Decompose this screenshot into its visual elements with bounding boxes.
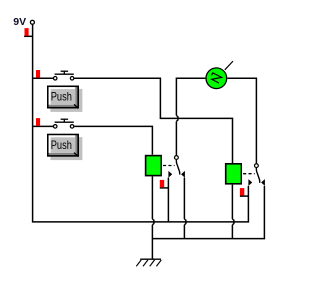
svg-text:9V: 9V — [13, 16, 26, 28]
svg-text:Push: Push — [51, 90, 72, 104]
svg-text:Push: Push — [51, 138, 72, 152]
